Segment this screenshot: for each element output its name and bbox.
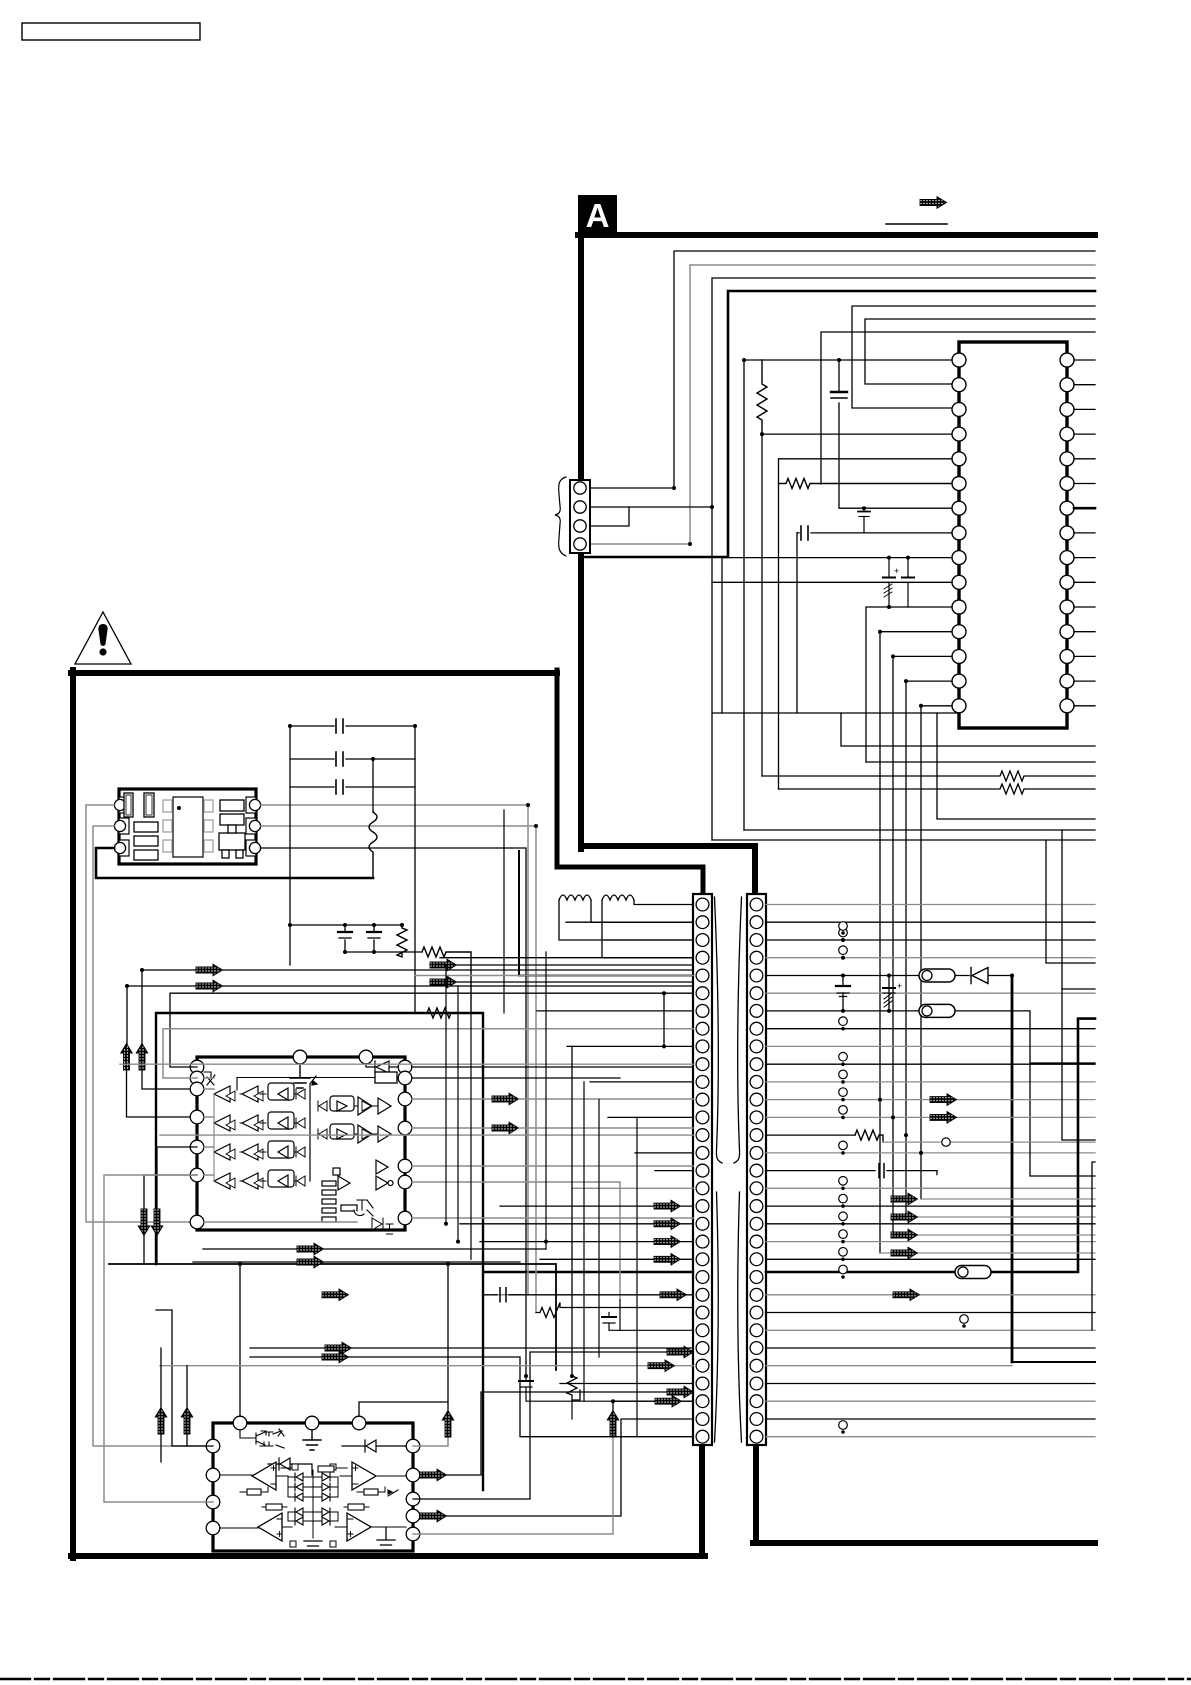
ic U2 mux line — [310, 1076, 317, 1181]
wire A55 cont — [613, 1401, 693, 1410]
arrow A57 — [181, 1408, 193, 1435]
capacitor C20 — [290, 719, 415, 733]
wire U2 p5R — [412, 1165, 693, 1167]
connector CN3 — [570, 480, 590, 553]
ic U2 buffers — [214, 1083, 305, 1189]
wire CN2 pin10 — [766, 1063, 1095, 1065]
module M1 pins — [114, 799, 260, 853]
ic U3 body — [213, 1423, 413, 1551]
resistor R21 — [357, 1487, 385, 1495]
wire M1 p2 left — [93, 826, 213, 1446]
wire cluster bottom — [345, 951, 422, 953]
inductor L12 — [602, 895, 634, 900]
wire U3 p3L — [104, 1175, 213, 1502]
wire U2 p2L — [163, 1029, 693, 1078]
wire U2 p5L down — [157, 1147, 197, 1211]
wire CN2 pin26 — [766, 1347, 1095, 1349]
wire rail828 — [744, 829, 1095, 831]
arrow A50 — [442, 1411, 454, 1438]
resistor R31 — [536, 1303, 693, 1318]
arrow Av1217 — [891, 1211, 918, 1223]
wire step963 — [1046, 840, 1095, 963]
module M1 resistors — [134, 800, 244, 860]
wire L6 to U1 pin2 — [865, 319, 1095, 384]
wire A34 to U2p4 — [127, 1070, 198, 1117]
wire U1 pin10 — [712, 581, 952, 583]
capacitor C2 — [797, 526, 952, 713]
capacitor C10 — [836, 976, 850, 1011]
wire arrow row986a — [221, 985, 693, 987]
wire CN2 pin4 — [766, 957, 1095, 959]
resistor R22 — [318, 1466, 334, 1472]
wire CN3 pin3 — [591, 507, 629, 526]
wire U1 pin13 — [893, 656, 952, 1235]
wire M1 p5 right — [261, 826, 536, 1313]
capacitor C24 — [367, 925, 381, 952]
wire L2 to CN3 pin4 — [591, 265, 1095, 544]
wire L3 to CN3 pin2 — [591, 278, 1095, 507]
wire A37 cont — [156, 1236, 158, 1264]
wire CN1 pin17 — [572, 1187, 693, 1189]
capacitor C32 — [519, 1376, 693, 1401]
wire U3 p1R up — [413, 1437, 448, 1446]
capacitor C31 — [602, 1313, 693, 1331]
wire CN1 pin2 — [566, 921, 693, 923]
connector CN1 body — [693, 894, 712, 1445]
op-amp U3d — [330, 1513, 406, 1547]
wire CN2 pin12 — [766, 1099, 1095, 1101]
block A feed to connector CN2 — [581, 846, 755, 894]
module M1 body — [119, 789, 256, 864]
arrow A73 — [297, 1243, 324, 1255]
wire CN1 pin28 — [560, 1383, 693, 1385]
diode D2 — [366, 1061, 398, 1073]
wire CN1 pin20 — [480, 1241, 693, 1243]
arrow A52 — [667, 1386, 694, 1398]
jumper J3 — [955, 1266, 991, 1279]
wire bus 1264 — [109, 1264, 556, 1370]
bottom page dashed line — [0, 1678, 1191, 1680]
wire A50 cont — [447, 1264, 449, 1410]
wire CN2 pin1 — [766, 904, 1095, 906]
jumper J1 — [919, 969, 955, 982]
junction dots left — [125, 358, 923, 1403]
wire U2 p6R — [412, 1182, 620, 1300]
wire CN1 pin14 — [160, 1134, 693, 1136]
block A bottom border — [753, 1445, 1095, 1543]
wire U2 left col — [213, 1094, 215, 1181]
wire CN2 pin29 — [766, 1400, 1095, 1402]
arrow A75 — [648, 1360, 675, 1372]
wire U2 p4R cont — [519, 1127, 693, 1129]
arrow A31 — [196, 980, 223, 992]
wire U2 p4R — [412, 1127, 492, 1129]
wire bus box — [156, 1013, 483, 1490]
ic U2 lower cells — [322, 1160, 395, 1234]
arrow A30 — [196, 964, 223, 976]
diode D4 — [342, 1440, 406, 1452]
arrow A54 — [420, 1510, 447, 1522]
bracket CN1 — [715, 897, 723, 1442]
ic U1 right pins — [1060, 353, 1074, 713]
wire CN1 pin27 — [160, 1365, 693, 1367]
wire CN2 pin3 — [766, 939, 1095, 941]
resistor R12 — [427, 1008, 451, 1018]
wire L7 to R3 — [821, 332, 1095, 484]
capacitor C23 — [338, 925, 352, 952]
arrow Av1253 — [891, 1247, 918, 1259]
wire U1 pin1 — [744, 360, 952, 830]
arrow A72 — [322, 1351, 349, 1363]
op-amp U3a — [220, 1462, 298, 1490]
arrow A55 — [607, 1411, 619, 1438]
arrow A618 — [654, 1218, 681, 1230]
wire U2 p1R — [412, 1066, 693, 1068]
ic U2 pins — [190, 1050, 412, 1229]
wire U1 pin11 — [866, 607, 952, 762]
wire L11 net — [559, 900, 693, 940]
wire CN2 pin28 — [766, 1383, 1095, 1385]
ic U2 body — [197, 1057, 405, 1230]
wire CN1 pin5 — [415, 975, 693, 977]
ic U1 body — [959, 342, 1067, 728]
wire C20 net right — [414, 726, 416, 1013]
block A left border — [578, 230, 584, 849]
wire link664 — [662, 991, 666, 1048]
wire CN2 pin21 — [766, 1258, 1095, 1260]
ground U3 right — [377, 1528, 395, 1550]
inductor L10 — [369, 812, 377, 878]
wire CN1 pin26 — [250, 1347, 693, 1349]
wire arrow row982c — [430, 981, 693, 983]
wire CN2 pin31 — [766, 1436, 1095, 1438]
arrow A23 — [893, 1289, 920, 1301]
arrow A53 — [667, 1346, 694, 1358]
module M1 pads — [163, 800, 213, 852]
connector CN2 body — [747, 894, 766, 1445]
inductor L11 — [559, 895, 591, 900]
wire row1249 — [203, 1248, 546, 1250]
wire A36 cont — [143, 1236, 145, 1264]
wire CN2 pin5 net — [766, 976, 1095, 1363]
resistor R10 — [397, 925, 407, 957]
wire vert x546 — [545, 952, 547, 1249]
wire CN2 pin6 — [766, 992, 1095, 994]
wire M1 p4 right — [261, 805, 528, 1295]
wire net1253 — [880, 1252, 1095, 1254]
direction arrow top — [920, 197, 947, 209]
ground U3 mid — [304, 1541, 322, 1551]
resistor R5 — [779, 784, 1096, 794]
wire U1 pin5 — [779, 459, 953, 789]
wire bus519 — [519, 851, 693, 976]
wire vert504 — [503, 810, 505, 1013]
arrow Av1199 — [891, 1193, 918, 1205]
ic U1 left pins — [952, 353, 966, 713]
ground U3 top — [303, 1430, 321, 1450]
arrow A12 — [930, 1094, 957, 1106]
arrow A617 — [654, 1200, 681, 1212]
wire U3 p1L — [156, 1310, 213, 1446]
wire U1 pin14 — [906, 681, 952, 1217]
wire vert x458 — [457, 986, 459, 1242]
wire net1217 — [906, 1216, 1095, 1218]
wire rail746 — [841, 713, 1095, 746]
wire net1235 — [893, 1234, 1095, 1236]
module M1 pin pads — [119, 797, 256, 856]
module M1 ic — [173, 797, 203, 857]
arrow A32 — [430, 959, 457, 971]
wire A57 net — [186, 1366, 188, 1446]
wire CN2 pin22 bus — [484, 1019, 1095, 1272]
svg-text:+: + — [897, 981, 902, 991]
svg-text:A: A — [586, 197, 610, 234]
wire U1 pin12 — [880, 632, 952, 1253]
wire net713 — [712, 507, 959, 840]
wire rail819 — [937, 713, 1095, 819]
wire net1199 — [921, 1198, 1095, 1200]
module M1 capacitors — [124, 793, 154, 817]
wire U2 rail bottom — [204, 1221, 357, 1223]
resistor R11 — [422, 947, 471, 1013]
wire M1 p3 left bend — [96, 848, 373, 878]
capacitor C11 — [883, 976, 902, 1011]
wire vert x446 — [445, 965, 447, 1224]
ground U2 top — [290, 1064, 310, 1088]
wire U3 p2R arrow — [420, 1474, 424, 1476]
wire L1 to CN3 pin1 — [591, 251, 1095, 488]
module M1 transistor — [219, 825, 245, 858]
wire CN2 pin14b — [883, 1141, 1095, 1143]
wire CN2 pin7 net — [766, 1011, 1095, 1176]
wire CN1 pin10 — [120, 1063, 693, 1065]
wire CN2 pin14a — [766, 1134, 855, 1136]
block label A — [578, 195, 617, 234]
wire rail762 — [866, 761, 1095, 763]
wire CN1 pin13 — [608, 1116, 693, 1118]
arrow A619 — [654, 1236, 681, 1248]
svg-text:+: + — [894, 566, 899, 576]
left block bottom border — [71, 1553, 705, 1559]
wire C20 net left — [289, 726, 291, 965]
wire vert x620b — [619, 1300, 621, 1330]
wire step989 — [1062, 830, 1095, 989]
wire U2 p6L down — [144, 1175, 197, 1211]
junction dots right — [841, 938, 1014, 1155]
block A top border — [578, 232, 1095, 238]
ic U2 output stages — [318, 1096, 391, 1143]
arrow A74 — [297, 1256, 324, 1268]
resistor R4 — [762, 771, 1095, 781]
wire M1 p6 right — [261, 848, 526, 1376]
op-amp U3b — [330, 1462, 406, 1490]
capacitor C3 — [858, 508, 870, 533]
wire CN2 pin20 — [766, 1241, 1095, 1243]
arrow Av1235 — [891, 1229, 918, 1241]
arrow A35 — [136, 1044, 148, 1071]
wire CN2 pin25 — [766, 1329, 1095, 1331]
wire U3 p2R cont — [447, 1392, 667, 1475]
wire arrow row986b — [127, 986, 196, 1044]
wire step1162 — [1092, 1162, 1095, 1330]
ic U2 switch mark — [204, 1072, 215, 1085]
wire rail840 — [712, 839, 1095, 841]
wire M1 p1 left — [86, 805, 197, 1222]
wire U3 p4R cont — [447, 1419, 693, 1516]
brace CN3 — [555, 477, 566, 556]
wire CN1 pin19 — [460, 1223, 693, 1225]
connector CN2 pins — [750, 898, 763, 1443]
wire CN2 pin2 — [766, 921, 1095, 923]
left block feed to connector CN1 — [557, 670, 703, 894]
wire CN2 pin15 — [766, 1152, 1095, 1154]
capacitor C21 — [290, 752, 415, 766]
wire CN1 pin4 — [440, 957, 693, 959]
wire CN2 pin19 — [766, 1223, 1095, 1225]
wire CN1 pin18 — [500, 1205, 693, 1207]
wire bus L4 — [581, 291, 1095, 557]
switch mark U3 — [388, 1490, 398, 1496]
wire U2 p7R — [412, 1217, 693, 1219]
wire vert x584 — [583, 1082, 585, 1401]
arrow A36 — [138, 1209, 150, 1236]
wire vert x637 — [636, 1117, 638, 1436]
wire CN2 pin17 — [766, 1187, 1095, 1189]
arrow A41 — [492, 1122, 519, 1134]
wire U2 p1L — [170, 993, 693, 1067]
wire CN2 pin23 — [766, 1294, 1095, 1296]
jumper J2 — [919, 1004, 955, 1017]
wire CN2 pin9 — [766, 1045, 1095, 1047]
test point TP20 — [942, 1138, 950, 1146]
wire arrow row970c — [430, 964, 693, 966]
wire CN2 pin27 — [766, 1365, 1012, 1367]
bracket CN2 — [734, 897, 742, 1442]
wire CN2 pin8 — [766, 1028, 1095, 1030]
resistor R23 — [262, 1504, 287, 1510]
capacitor C22 — [290, 780, 415, 794]
arrow A76 — [322, 1289, 349, 1301]
wire CN1 pin21 — [540, 1258, 693, 1260]
arrow A56 — [155, 1408, 167, 1435]
vertical bus x1012 — [1012, 976, 1095, 1363]
wire CN1 pin16 — [655, 1170, 693, 1172]
arrow A34 — [121, 1044, 133, 1071]
arrow A40 — [492, 1093, 519, 1105]
wire U2 p3R — [412, 1098, 492, 1100]
wire CN2 pin13 — [766, 1116, 1095, 1118]
wire CN2 pin24 — [766, 1312, 1095, 1314]
wire L12 net — [602, 900, 693, 958]
arrow A71 — [325, 1342, 352, 1354]
capacitor C5 — [902, 558, 914, 607]
left block top border — [71, 670, 557, 676]
wire CN2 pin11 — [766, 1081, 1095, 1083]
wire U2 p3R cont — [519, 1098, 693, 1100]
wire cluster top — [290, 924, 402, 926]
wire U1 pin15 — [921, 706, 952, 1199]
ic U3 pins — [206, 1416, 420, 1541]
wire CN1 pin15 — [635, 1152, 693, 1154]
wire L5 to U1 pin3 — [852, 306, 1095, 408]
arrow A37 — [151, 1209, 163, 1236]
diode D3 — [268, 1458, 312, 1475]
wire CN2 pin16a — [766, 1171, 937, 1175]
wire arrow row970b — [142, 970, 196, 1044]
wire U2 p2R — [412, 1077, 620, 1079]
left connector strip feed bottom — [699, 1445, 705, 1556]
wire step1063 — [1030, 1062, 1095, 1064]
wire CN2 pin18 — [766, 1205, 1095, 1207]
resistor R20 — [240, 1487, 268, 1495]
arrow A77 — [655, 1395, 682, 1407]
test points TP column — [839, 922, 969, 1434]
wire row1355 — [250, 1357, 693, 1437]
wire arrow row970a — [221, 969, 693, 971]
wire CN1 pin9 — [567, 1045, 693, 1047]
ic U1 pin7 thick stub — [1074, 507, 1095, 510]
title box top-left — [22, 23, 200, 40]
warning triangle — [75, 612, 131, 664]
arrow A620 — [654, 1254, 681, 1266]
wire step1140 — [1062, 989, 1095, 1140]
wire CN1 pin11 — [590, 1081, 693, 1083]
junction dots U1 area — [862, 506, 910, 609]
arrow A70 — [660, 1289, 687, 1301]
wire CN1 pin7 — [537, 1010, 693, 1012]
op-amp U3c — [220, 1513, 296, 1547]
capacitor C1 — [831, 360, 952, 508]
wire row1262 — [193, 1261, 520, 1263]
wire U3 top p1 — [239, 1264, 241, 1416]
resistor R13 — [237, 1072, 398, 1090]
wire CN1 pin3 — [605, 939, 693, 941]
label underline top — [886, 223, 947, 225]
arrow A33 — [430, 976, 457, 988]
resistor R24 — [344, 1504, 369, 1510]
wire A56 net — [160, 1348, 162, 1462]
wire C21 right — [372, 759, 374, 812]
wire U3 p5R — [413, 1437, 613, 1534]
wire U1 pin9 — [722, 558, 952, 713]
capacitor C30 — [483, 1288, 693, 1302]
ic U1 right pin stubs — [1074, 360, 1095, 706]
arrow A13 — [930, 1112, 957, 1124]
wire U1 pin4 — [762, 434, 952, 776]
transistor Q1 — [240, 1429, 284, 1448]
wire U3 p4R arrow — [420, 1515, 424, 1517]
wire CN2 pin30 — [766, 1418, 1095, 1420]
wire vert x599 — [598, 1100, 600, 1357]
resistor R2 — [757, 360, 767, 434]
wire U3 p3R — [413, 1352, 667, 1499]
wire A35 to U2p3 — [142, 1070, 197, 1089]
diode D1 — [971, 968, 988, 984]
capacitor C4 — [883, 558, 899, 607]
diode array U3 — [288, 1470, 338, 1538]
wire U2 rail p2 — [204, 1078, 214, 1175]
arrow A51 — [420, 1469, 447, 1481]
wire U3 top p3 — [359, 1402, 448, 1416]
resistor R33 — [567, 1046, 580, 1419]
resistor R6 — [855, 1130, 883, 1142]
left block left border — [70, 670, 76, 1558]
connector CN1 pins — [696, 898, 709, 1443]
wire vert x471 — [470, 1013, 472, 1259]
resistor R3 — [779, 479, 953, 489]
capacitor C12 — [879, 1164, 884, 1178]
